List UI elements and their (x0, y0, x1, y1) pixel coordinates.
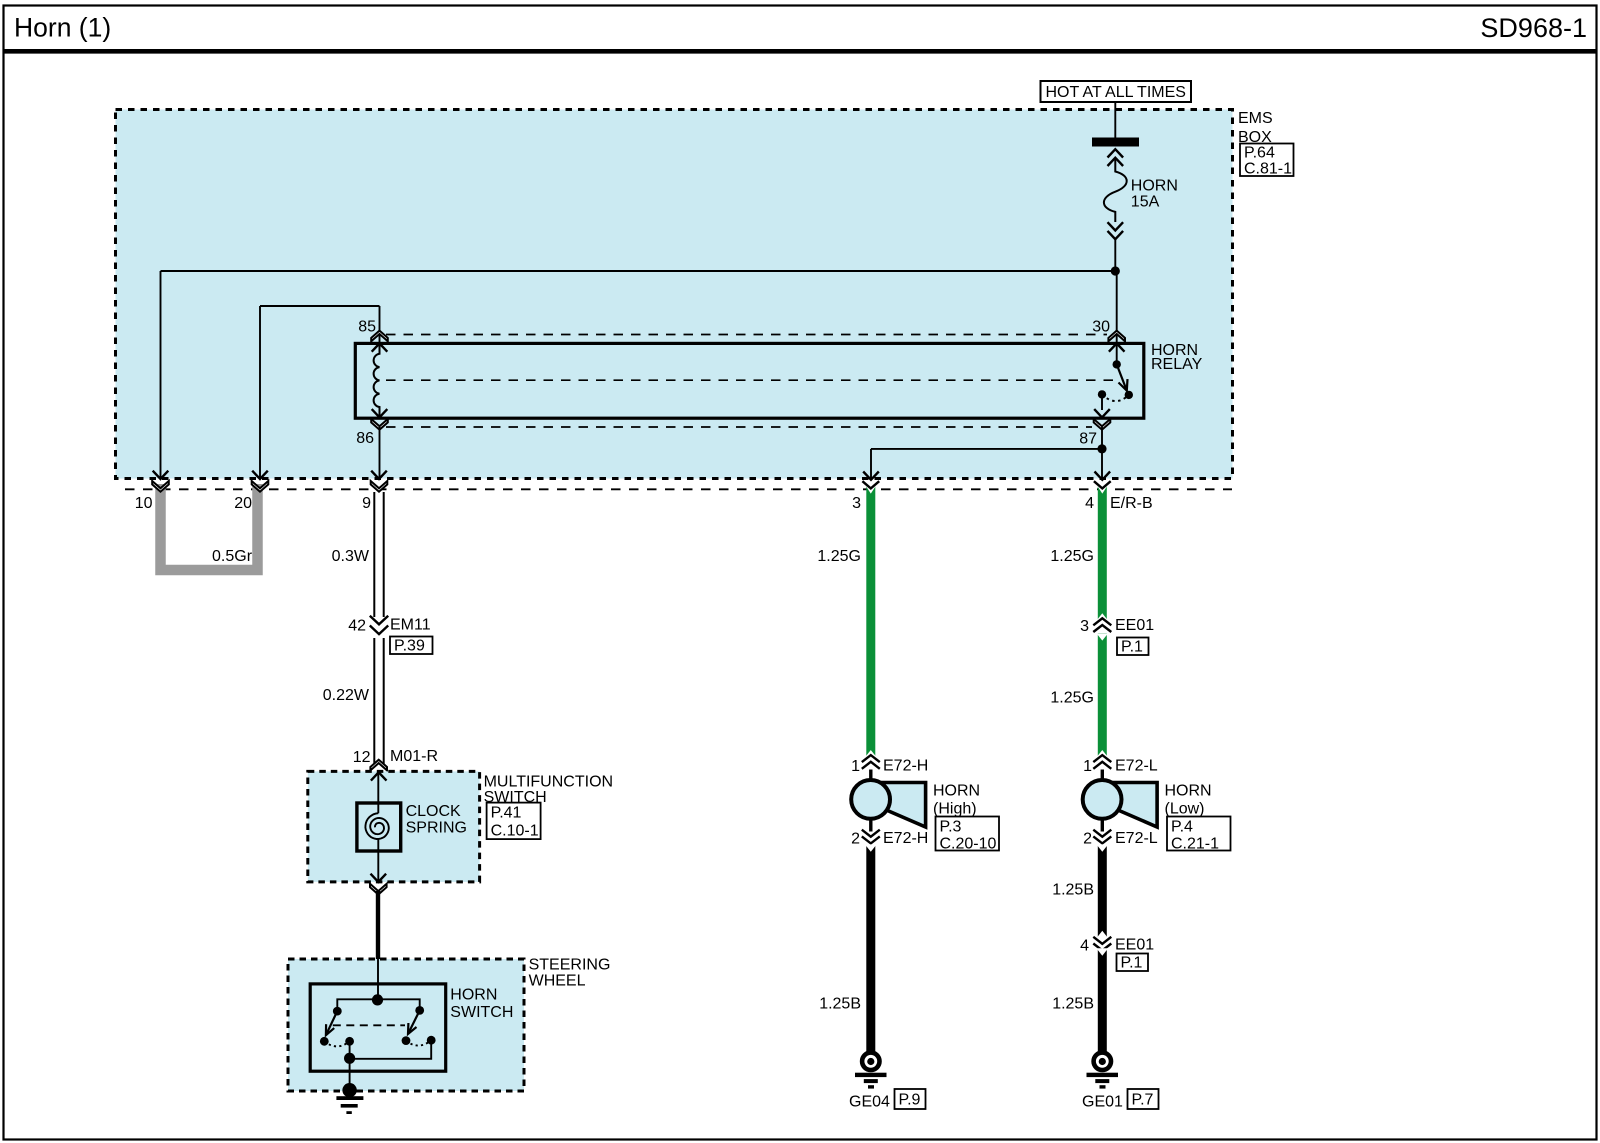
label 0.3W (332, 548, 370, 565)
label 1.25B high (819, 996, 861, 1013)
wire pin 20 drop (259, 306, 261, 479)
svg-text:EE01: EE01 (1115, 617, 1154, 634)
ref box P.3 C.20-10 (936, 817, 1000, 853)
svg-text:C.21-1: C.21-1 (1171, 836, 1219, 853)
svg-text:1: 1 (1083, 758, 1092, 775)
svg-text:P.7: P.7 (1132, 1092, 1154, 1109)
wire junction to relay pin 30 (1116, 271, 1118, 364)
net label EE01 (4) (1115, 937, 1154, 954)
wire connector to horn low (1101, 770, 1104, 783)
horn switch box (310, 984, 446, 1071)
label 1.25G low upper (1050, 548, 1094, 565)
horn switch left pole node (333, 1007, 342, 1016)
junction node (fuse output) (1111, 266, 1120, 275)
horn relay box (355, 343, 1144, 418)
horn switch right blade (408, 1010, 420, 1034)
svg-text:E72-L: E72-L (1115, 830, 1158, 847)
wire junction to pin 10 column (161, 270, 1116, 272)
horn switch feed node (372, 994, 383, 1005)
label EMS BOX (1238, 110, 1273, 146)
wire 1.25B low upper (black) (1096, 844, 1108, 938)
ground (steering wheel) (336, 1096, 363, 1114)
multifunction switch entry arrow (371, 772, 387, 780)
horn switch right pole node (415, 1006, 424, 1015)
svg-text:E72-H: E72-H (883, 758, 928, 775)
wire 1.25G high (green) (862, 481, 879, 757)
svg-text:C.81-1: C.81-1 (1244, 161, 1292, 178)
ground GE04 (855, 1053, 887, 1089)
connector E72-H pin 1 (851, 755, 880, 775)
svg-text:4: 4 (1080, 938, 1089, 955)
svg-text:HORN: HORN (933, 783, 980, 800)
wire 87 junction to horn high column (871, 448, 1102, 450)
net label M01-R (390, 748, 438, 765)
clock spring box (357, 803, 401, 851)
svg-text:SD968-1: SD968-1 (1480, 13, 1587, 43)
connector M01-R pin 12 (353, 749, 387, 770)
svg-text:P.64: P.64 (1244, 145, 1275, 162)
svg-text:SPRING: SPRING (406, 820, 467, 837)
wire horn high drop (870, 449, 872, 479)
svg-text:EM11: EM11 (390, 617, 431, 634)
horn switch left blade (326, 1011, 337, 1035)
svg-text:P.39: P.39 (394, 638, 425, 655)
fuse top chevrons (1108, 149, 1124, 166)
label 1.25B low upper (1052, 882, 1094, 899)
svg-text:P.1: P.1 (1121, 955, 1143, 972)
svg-text:C.10-1: C.10-1 (491, 823, 539, 840)
wire fuse to junction (1114, 239, 1116, 271)
horn switch output node (344, 1053, 355, 1064)
multifunction switch box (308, 771, 480, 882)
wire relay 86 down (379, 427, 381, 479)
wire contact to relay pin 87 (1101, 394, 1103, 410)
ref box P.4 C.21-1 (1167, 817, 1231, 853)
wire to relay pin 85 (379, 306, 381, 352)
net label E72-L (1) (1115, 758, 1158, 775)
svg-text:2: 2 (851, 831, 860, 848)
connector pin 10 (135, 471, 169, 512)
label HORN 15A (1131, 178, 1178, 211)
relay internal dashed line bottom (386, 426, 1092, 428)
svg-text:(Low): (Low) (1165, 801, 1205, 818)
horn switch contact a2 (345, 1037, 354, 1046)
svg-text:P.41: P.41 (491, 805, 522, 822)
svg-text:P.1: P.1 (1121, 639, 1143, 656)
svg-text:1.25B: 1.25B (819, 996, 861, 1013)
net label GE04 (849, 1094, 890, 1111)
relay switch blade (1117, 364, 1128, 390)
svg-text:MULTIFUNCTION: MULTIFUNCTION (484, 773, 613, 790)
svg-text:EE01: EE01 (1115, 937, 1154, 954)
horn low symbol (1083, 780, 1157, 827)
connector pin 20 (234, 471, 268, 512)
svg-text:86: 86 (356, 430, 374, 447)
svg-text:E/R-B: E/R-B (1110, 495, 1153, 512)
net label E72-L (2) (1115, 830, 1158, 847)
svg-text:2: 2 (1083, 831, 1092, 848)
fuse bottom chevrons (1108, 222, 1124, 239)
wire 0.22W (white, double line) (374, 638, 383, 767)
svg-text:1.25B: 1.25B (1052, 882, 1094, 899)
connector pin 3 (852, 472, 879, 513)
net label E72-H (2) (883, 830, 928, 847)
svg-text:HOT AT ALL TIMES: HOT AT ALL TIMES (1045, 84, 1186, 101)
horn switch dotted link a (324, 1041, 349, 1046)
svg-text:0.22W: 0.22W (323, 687, 370, 704)
ref box P.39 (390, 637, 433, 655)
connector E72-L pin 2 (1083, 830, 1111, 848)
label HORN SWITCH (450, 987, 513, 1022)
svg-text:3: 3 (852, 495, 861, 512)
wire horn low to connector 2 (1101, 819, 1104, 832)
connector pin 4 (1085, 472, 1110, 513)
svg-text:HORN: HORN (1131, 178, 1178, 195)
ground GE01 (1087, 1053, 1119, 1089)
wire 1.25G low lower (green) (1096, 633, 1108, 757)
relay internal dashed line middle (386, 379, 1113, 381)
ref box P.64 C.81-1 (1240, 144, 1294, 178)
svg-text:EMS: EMS (1238, 110, 1273, 127)
svg-text:87: 87 (1079, 431, 1097, 448)
wire from HOT AT ALL TIMES to fuse (1114, 102, 1116, 138)
label HORN (High) (933, 783, 980, 818)
title Horn (1) (14, 13, 111, 43)
svg-text:0.5Gr: 0.5Gr (212, 548, 253, 565)
svg-text:SWITCH: SWITCH (450, 1004, 513, 1021)
svg-text:M01-R: M01-R (390, 748, 438, 765)
wire connector to horn high (869, 770, 872, 783)
horn high symbol (851, 780, 925, 827)
svg-text:E72-H: E72-H (883, 830, 928, 847)
wire into horn switch (377, 959, 379, 1000)
svg-text:E72-L: E72-L (1115, 758, 1158, 775)
net label GE01 (1082, 1094, 1123, 1111)
svg-text:4: 4 (1085, 495, 1094, 512)
net label EM11 (390, 617, 431, 634)
wire 1.25G low upper (green) (1094, 481, 1111, 621)
svg-text:9: 9 (362, 495, 371, 512)
relay pin 85 (358, 319, 388, 352)
multifunction switch exit (370, 874, 387, 895)
svg-text:20: 20 (234, 495, 252, 512)
svg-text:HORN: HORN (450, 987, 497, 1004)
svg-text:CLOCK: CLOCK (406, 803, 461, 820)
relay switch common node (1113, 360, 1121, 368)
wire pin 10 drop (160, 271, 162, 479)
svg-text:(High): (High) (933, 801, 977, 818)
svg-text:P.3: P.3 (940, 819, 962, 836)
connector EE01 pin 4 (1080, 937, 1111, 955)
horn switch contact b1 (402, 1036, 411, 1045)
ref box P.1 (top) (1117, 638, 1149, 656)
ref box P.41 C.10-1 (487, 803, 541, 840)
label HORN (Low) (1165, 783, 1212, 818)
relay pin 86 (356, 409, 388, 447)
ref box P.9 (895, 1089, 926, 1109)
header rule (4, 49, 1596, 54)
svg-text:HORN: HORN (1165, 783, 1212, 800)
svg-text:1.25B: 1.25B (1052, 996, 1094, 1013)
connector E72-L pin 1 (1083, 755, 1111, 775)
wire pin 87 down (1101, 427, 1103, 479)
svg-text:1.25G: 1.25G (1050, 690, 1094, 707)
svg-text:0.3W: 0.3W (332, 548, 370, 565)
label 1.25G low lower (1050, 690, 1094, 707)
steering wheel box (288, 959, 524, 1091)
EMS BOX (fuse/relay box, dashed) (116, 110, 1233, 479)
net label E/R-B (1110, 495, 1153, 512)
svg-text:GE01: GE01 (1082, 1094, 1123, 1111)
wire 0.3W (white, double line) (374, 492, 383, 617)
wire multifunction switch to steering wheel (376, 891, 380, 961)
ref box P.7 (1128, 1089, 1159, 1109)
connector EE01 pin 3 (1080, 618, 1111, 635)
label STEERING WHEEL (529, 957, 611, 990)
fuse HORN 15A element (1104, 158, 1127, 222)
svg-text:1: 1 (851, 758, 860, 775)
label 0.22W (323, 687, 370, 704)
svg-text:GE04: GE04 (849, 1094, 890, 1111)
svg-text:12: 12 (353, 749, 371, 766)
svg-text:85: 85 (358, 319, 376, 336)
horn switch top rail (337, 999, 419, 1011)
ground node on steering wheel box (342, 1083, 356, 1097)
horn switch contact b2 (427, 1036, 436, 1045)
wire horn switch to ground (349, 1058, 351, 1090)
relay coil (374, 343, 380, 417)
label 1.25B low lower (1052, 996, 1094, 1013)
relay contact dotted link (1102, 394, 1129, 401)
fuse bar (1092, 138, 1139, 147)
EMS connector dashed line (125, 488, 1232, 490)
ref box P.1 (bottom) (1117, 954, 1149, 972)
svg-text:1.25G: 1.25G (1050, 548, 1094, 565)
wire pin 85 feed horizontal (260, 305, 380, 307)
relay pin 87 (1079, 409, 1110, 447)
label 1.25G high (817, 548, 861, 565)
junction node 87 (1097, 444, 1106, 453)
wire through clock spring (377, 772, 379, 882)
svg-text:42: 42 (348, 618, 366, 635)
relay contact to 87 (1098, 390, 1106, 398)
svg-text:10: 10 (135, 495, 153, 512)
clock spring spiral (365, 813, 388, 839)
net label E72-H (1) (883, 758, 928, 775)
svg-text:1.25G: 1.25G (817, 548, 861, 565)
connector pin 9 (362, 471, 387, 512)
svg-text:STEERING: STEERING (529, 957, 611, 974)
relay contact NO (1125, 391, 1133, 399)
connector EM11 pin 42 (348, 616, 388, 635)
wire 1.25B low lower (black) (1096, 948, 1108, 1051)
svg-text:P.9: P.9 (899, 1092, 921, 1109)
label 0.5Gr (212, 548, 253, 565)
svg-text:C.20-10: C.20-10 (940, 836, 997, 853)
svg-text:WHEEL: WHEEL (529, 973, 586, 990)
horn switch bottom rail (350, 1040, 432, 1059)
sheet number SD968-1 (1480, 13, 1587, 43)
label HOT AT ALL TIMES (1041, 81, 1192, 102)
horn switch contact a1 (320, 1037, 329, 1046)
connector E72-H pin 2 (851, 830, 880, 848)
svg-text:3: 3 (1080, 618, 1089, 635)
horn switch mechanical link (dashed) (333, 1024, 405, 1026)
svg-text:Horn (1): Horn (1) (14, 13, 111, 43)
svg-text:30: 30 (1092, 319, 1110, 336)
svg-text:RELAY: RELAY (1151, 356, 1203, 373)
label CLOCK SPRING (406, 803, 467, 837)
svg-text:P.4: P.4 (1171, 819, 1193, 836)
svg-text:15A: 15A (1131, 194, 1160, 211)
wire horn high to connector 2 (869, 819, 872, 832)
wire 1.25B high (black) (865, 844, 877, 1051)
relay internal dashed line top (386, 334, 1107, 336)
relay pin 30 (1092, 319, 1125, 352)
horn switch dotted link b (406, 1040, 431, 1045)
net label EE01 (3) (1115, 617, 1154, 634)
label MULTIFUNCTION SWITCH (484, 773, 613, 806)
jumper wire 0.5Gr (gray) (161, 484, 258, 570)
label HORN RELAY (1151, 342, 1203, 373)
